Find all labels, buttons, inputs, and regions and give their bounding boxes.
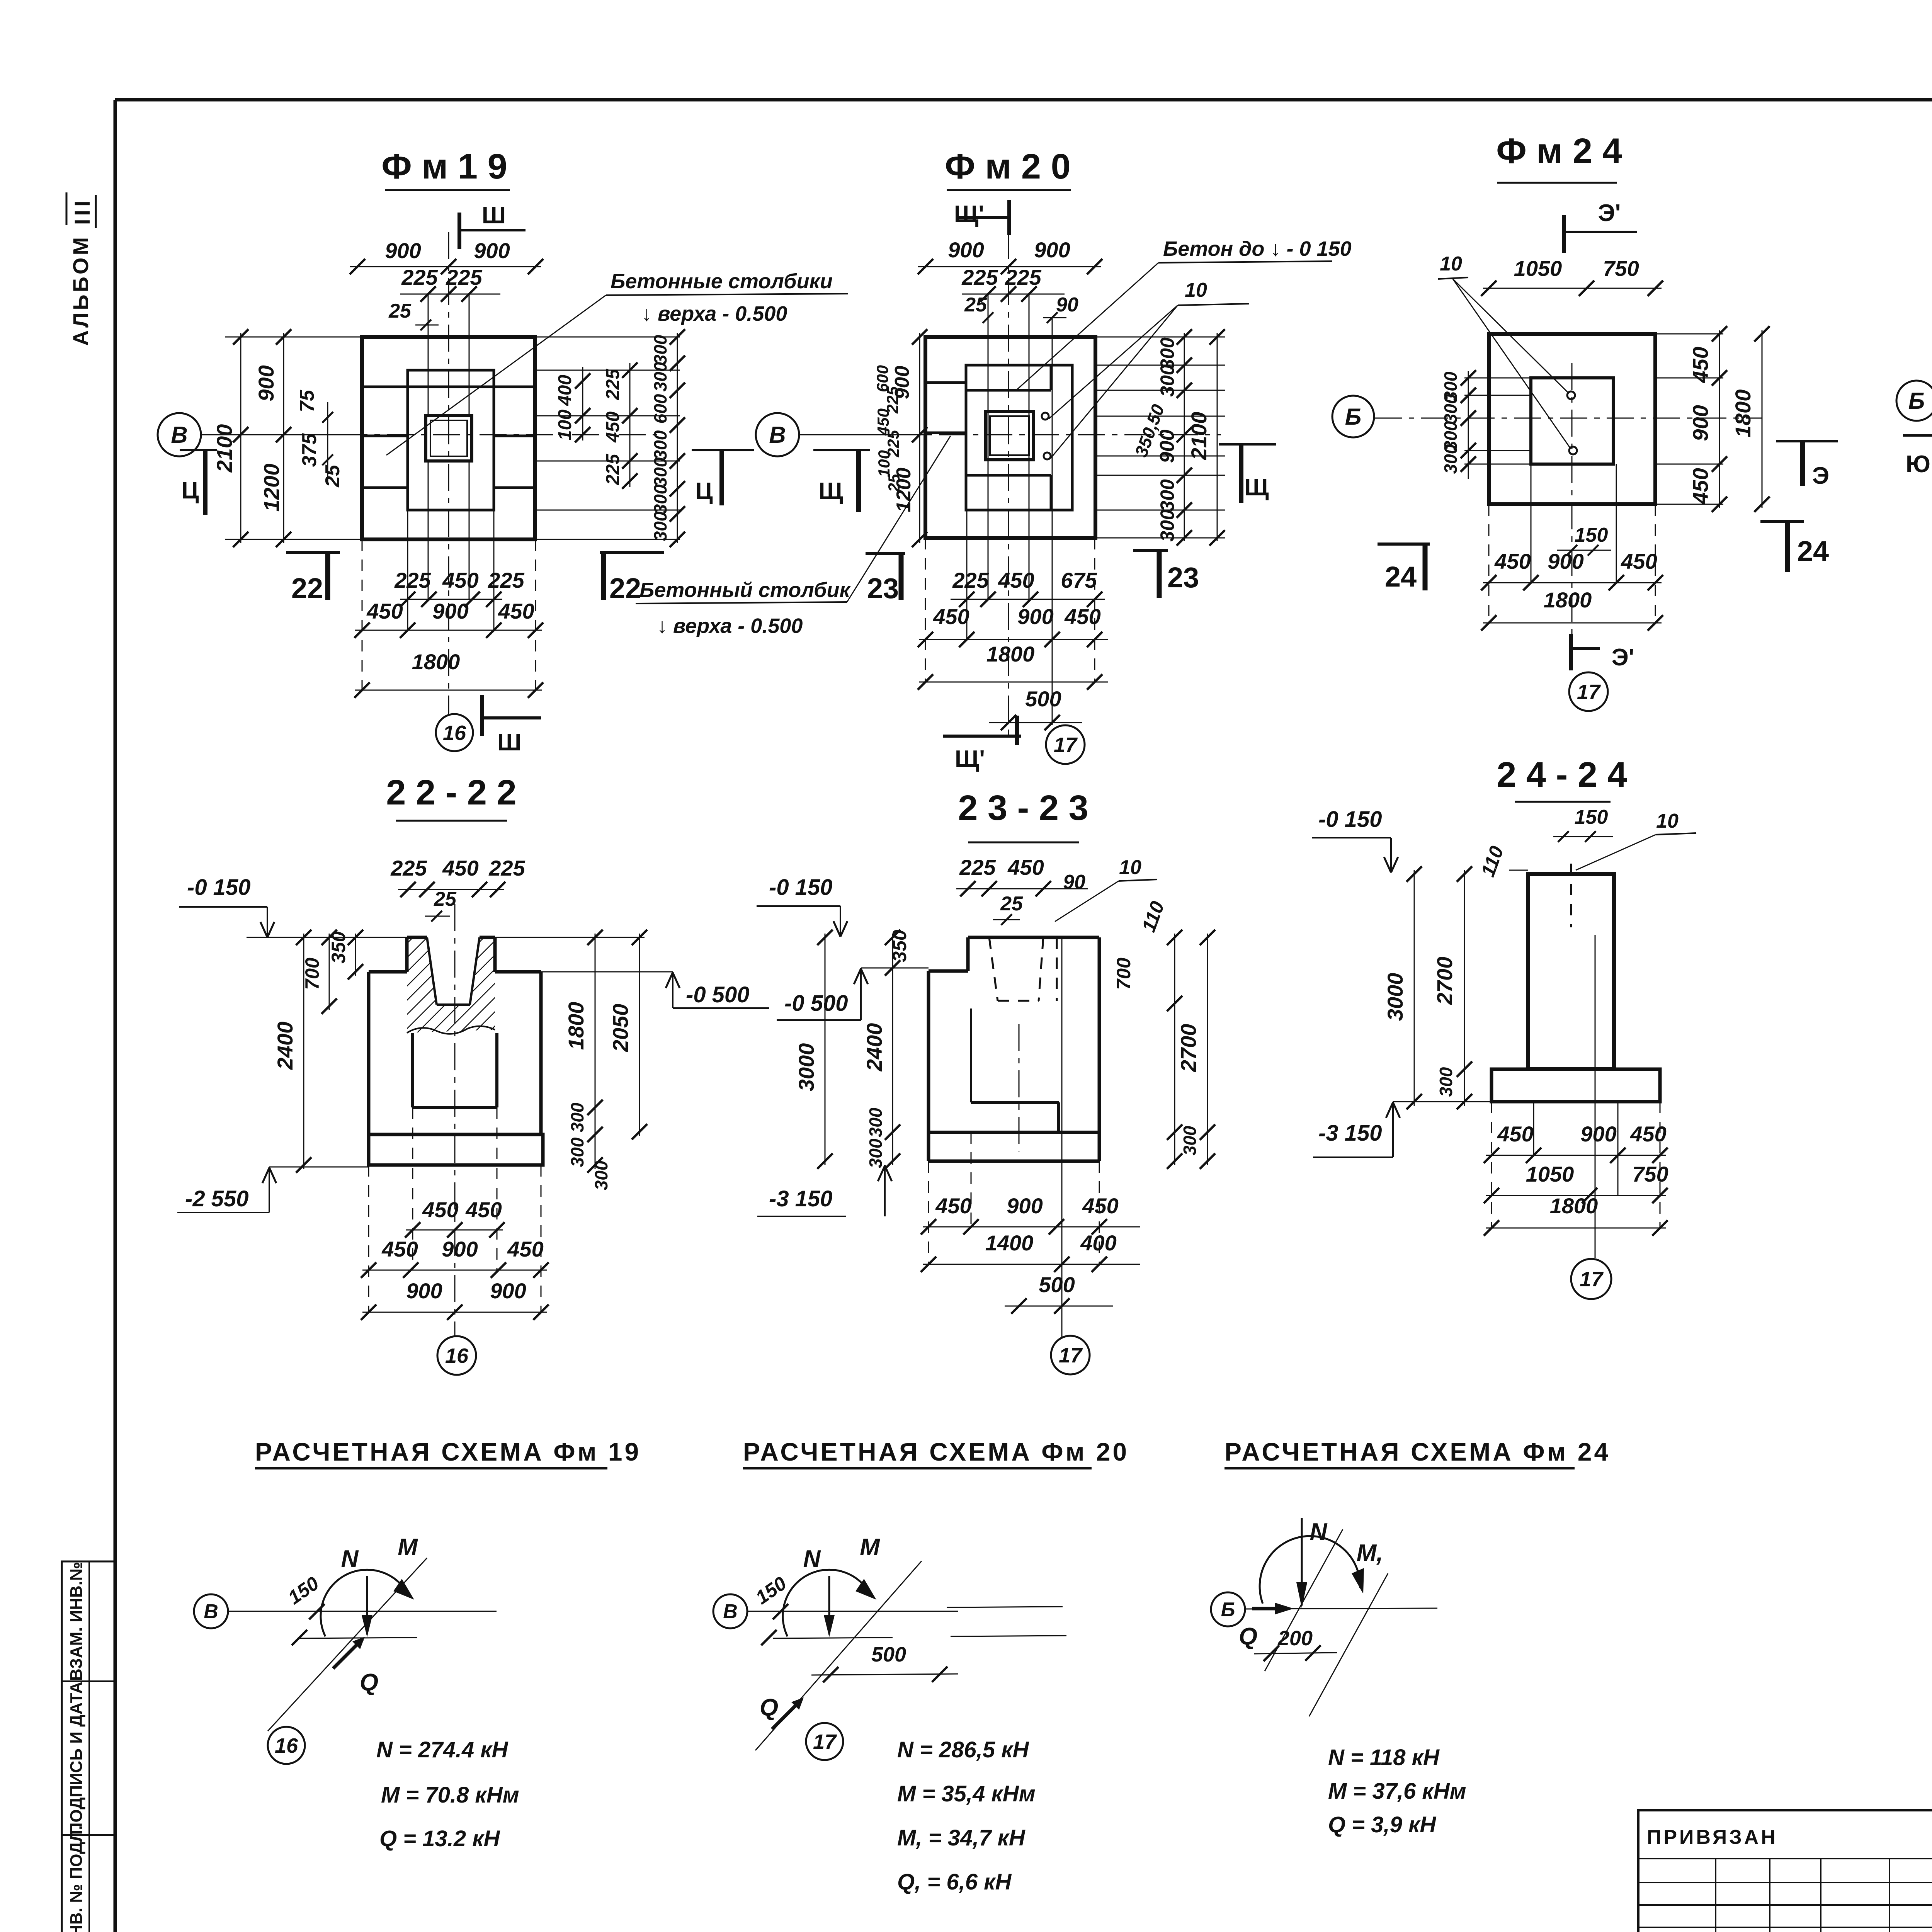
svg-text:500: 500 bbox=[871, 1643, 906, 1666]
scheme Фм24 force Q arrow bbox=[1252, 1607, 1287, 1611]
svg-text:ПРИВЯЗАН: ПРИВЯЗАН bbox=[1647, 1826, 1778, 1849]
plan Фм19 column cup inner bbox=[430, 420, 467, 456]
section 22-22 cup outline bbox=[407, 936, 427, 939]
plan Фм24 outer footing outline bbox=[1489, 334, 1655, 504]
scheme Фм20 force Q arrow bbox=[772, 1700, 801, 1729]
plan Фм19 projection horizontals to right chains bbox=[535, 337, 680, 338]
plan Фм24 post circles bbox=[1567, 391, 1575, 399]
svg-text:900: 900 bbox=[490, 1279, 526, 1303]
svg-text:M = 70.8 кНм: M = 70.8 кНм bbox=[381, 1782, 519, 1808]
section 22-22 left chain 2400 bbox=[303, 934, 304, 1169]
plan Фм20 top band notch bbox=[966, 389, 1051, 392]
svg-text:N: N bbox=[341, 1546, 359, 1572]
svg-text:300: 300 bbox=[650, 430, 670, 460]
plan Фм20 concrete post circles bbox=[1042, 413, 1049, 420]
svg-text:450: 450 bbox=[1621, 549, 1657, 573]
scheme Фм19 circle 16 bbox=[268, 1727, 305, 1764]
svg-text:2100: 2100 bbox=[212, 424, 236, 473]
svg-text:300: 300 bbox=[866, 1138, 886, 1168]
svg-text:Б: Б bbox=[1908, 388, 1925, 414]
section mark Ю left bbox=[1903, 434, 1932, 437]
svg-text:III: III bbox=[70, 197, 94, 225]
svg-text:Бетонные столбики: Бетонные столбики bbox=[611, 270, 833, 293]
svg-text:Б: Б bbox=[1345, 404, 1361, 430]
section mark 22 left bbox=[286, 551, 340, 554]
svg-text:750: 750 bbox=[1632, 1162, 1668, 1186]
scheme Фм19 diagonal bbox=[268, 1558, 427, 1731]
svg-text:Q: Q bbox=[360, 1669, 378, 1696]
sub table row lines bbox=[1638, 1858, 1932, 1859]
scheme Фм24 force N arrow bbox=[1301, 1518, 1303, 1605]
svg-text:23: 23 bbox=[867, 572, 899, 604]
svg-text:450: 450 bbox=[1688, 468, 1713, 504]
svg-text:2100: 2100 bbox=[1187, 412, 1211, 461]
svg-text:17: 17 bbox=[1580, 1268, 1604, 1291]
plan Фм19 step lines bbox=[362, 386, 535, 388]
scheme Фм24 diagonals bbox=[1265, 1529, 1343, 1671]
svg-text:1200: 1200 bbox=[259, 464, 284, 512]
svg-text:450: 450 bbox=[442, 568, 478, 592]
svg-text:16: 16 bbox=[445, 1344, 469, 1367]
svg-text:2050: 2050 bbox=[608, 1004, 633, 1053]
plan Фм19 right chain 225 450 225 bbox=[629, 363, 631, 487]
grid circle 17 below section 24-24 bbox=[1571, 1259, 1611, 1299]
svg-text:450: 450 bbox=[1497, 1122, 1533, 1146]
plan Фм20 bottom dim 1800 bbox=[919, 682, 1108, 683]
svg-text:900: 900 bbox=[1034, 238, 1070, 262]
svg-text:Ю: Ю bbox=[1906, 451, 1930, 478]
svg-text:1800: 1800 bbox=[1550, 1194, 1598, 1218]
plan Фм20 left chain 900 1200 bbox=[919, 333, 920, 543]
svg-text:25: 25 bbox=[885, 474, 903, 492]
left stamp strip cell line 1 bbox=[62, 1680, 115, 1682]
svg-text:90: 90 bbox=[1056, 294, 1078, 316]
svg-text:450: 450 bbox=[1630, 1122, 1666, 1146]
section 24-24 left chain 2700 300 bbox=[1464, 870, 1465, 1106]
svg-text:150: 150 bbox=[1575, 806, 1608, 828]
section 24-24 rebar dashed bbox=[1570, 864, 1572, 927]
svg-text:Q = 13.2 кН: Q = 13.2 кН bbox=[379, 1826, 500, 1851]
svg-text:10: 10 bbox=[1656, 810, 1679, 832]
section 22-22 right chain 2050 bbox=[639, 934, 640, 1136]
svg-text:22: 22 bbox=[609, 572, 641, 604]
plan Фм19 right chain 100 400 bbox=[582, 367, 583, 440]
plan Фм24 projection verticals bbox=[1531, 464, 1532, 583]
svg-text:16: 16 bbox=[275, 1734, 298, 1757]
plan Фм19 centre axis horizontal bbox=[201, 434, 657, 435]
svg-text:1800: 1800 bbox=[564, 1002, 588, 1050]
svg-text:17: 17 bbox=[1054, 733, 1078, 757]
svg-text:N = 274.4 кН: N = 274.4 кН bbox=[376, 1737, 509, 1762]
scheme Фм20 parallel lines bbox=[773, 1638, 893, 1638]
section mark 23 right bbox=[1133, 549, 1168, 552]
sheet frame left border bbox=[114, 100, 117, 1932]
svg-text:10: 10 bbox=[1119, 856, 1141, 879]
svg-text:Б: Б bbox=[1221, 1599, 1235, 1621]
svg-text:24: 24 bbox=[1385, 561, 1417, 593]
scheme Фм20 force N arrow bbox=[828, 1576, 830, 1634]
plan Фм19 top dim 900 900 bbox=[350, 266, 541, 267]
svg-text:225: 225 bbox=[401, 265, 438, 289]
svg-text:2400: 2400 bbox=[862, 1023, 886, 1072]
svg-text:Щ: Щ bbox=[1244, 474, 1269, 501]
left stamp strip outer box bbox=[62, 1561, 115, 1932]
svg-text:Щ': Щ' bbox=[955, 746, 985, 772]
svg-text:900: 900 bbox=[406, 1279, 442, 1303]
svg-text:В: В bbox=[171, 422, 187, 448]
plan Фм20 centre axis horizontal bbox=[800, 434, 1221, 435]
svg-text:Э: Э bbox=[1812, 463, 1829, 489]
section 22-22 body outline bbox=[369, 970, 407, 974]
svg-text:25: 25 bbox=[321, 464, 344, 488]
section 24-24 footing outline bbox=[1492, 1069, 1660, 1102]
section 23-23 left chain 350 2400 300 300 bbox=[892, 934, 893, 1165]
section 22-22 projection top right bbox=[495, 937, 645, 938]
plan Фм19 left dims 900 1200 bbox=[283, 333, 284, 543]
svg-text:600: 600 bbox=[650, 394, 670, 423]
svg-text:М = 37,6 кНм: М = 37,6 кНм bbox=[1328, 1779, 1466, 1804]
section 23-23 right chain 110 700 2700 300 bbox=[1174, 934, 1175, 1165]
svg-text:300: 300 bbox=[1440, 394, 1461, 423]
section 22-22 bottom dim 450 900 450 bbox=[362, 1270, 547, 1271]
svg-text:900: 900 bbox=[1007, 1194, 1043, 1218]
axis circle В left of Фм19 bbox=[158, 413, 201, 456]
section 23-23 left chain 3000 bbox=[825, 934, 826, 1165]
scheme Фм20 circle 17 bbox=[806, 1723, 843, 1760]
svg-text:225: 225 bbox=[961, 265, 998, 289]
svg-text:-0 150: -0 150 bbox=[769, 875, 832, 900]
section 24-24 projection verticals bbox=[1533, 1102, 1534, 1155]
svg-text:В: В bbox=[204, 1600, 218, 1623]
plan Фм20 bottom dim 500 bbox=[989, 722, 1082, 723]
svg-text:225: 225 bbox=[394, 568, 431, 592]
section 22-22 projection line top bbox=[247, 937, 407, 938]
sub table Привязан outer box bbox=[1638, 1810, 1932, 1932]
section mark 24 left bbox=[1378, 543, 1430, 546]
plan Фм24 centre axis vertical bbox=[1571, 363, 1573, 672]
svg-text:900: 900 bbox=[1580, 1122, 1616, 1146]
plan Фм19 top section mark Ш bbox=[457, 213, 461, 249]
plan Фм20 bottom section mark Щ' bbox=[943, 735, 1021, 738]
scheme Фм20 dim 500 bbox=[811, 1674, 958, 1675]
plan Фм19 centre axis vertical bbox=[448, 232, 449, 714]
section 24-24 centre axis bbox=[1595, 935, 1596, 1258]
plan Фм24 inner opening outline bbox=[1531, 378, 1613, 464]
section 23-23 inner step bbox=[970, 1009, 972, 1102]
scheme Фм24 moment M arc bbox=[1260, 1536, 1360, 1604]
scheme Фм20 axis line bbox=[747, 1611, 958, 1612]
svg-text:↓ верха - 0.500: ↓ верха - 0.500 bbox=[657, 614, 803, 638]
svg-text:РАСЧЕТНАЯ СХЕМА Фм 19: РАСЧЕТНАЯ СХЕМА Фм 19 bbox=[255, 1437, 641, 1466]
scheme Фм24 axis circle Б bbox=[1211, 1592, 1245, 1626]
section mark Ц left bbox=[180, 449, 217, 451]
grid circle 17 below Фм24 bbox=[1569, 672, 1608, 711]
svg-text:-3 150: -3 150 bbox=[769, 1186, 832, 1211]
svg-text:225: 225 bbox=[488, 856, 525, 880]
section 22-22 projection verticals to dims bbox=[412, 1107, 413, 1270]
plan Фм19 bottom dim 450 900 450 bbox=[355, 630, 542, 631]
section 23-23 projection verticals bbox=[928, 1161, 929, 1264]
section 24-24 bottom dim 1050 750 bbox=[1486, 1195, 1666, 1196]
section 23-23 off axis line bbox=[1061, 937, 1063, 1337]
section 22-22 centre axis bbox=[454, 904, 456, 1337]
left stamp strip cell line 2 bbox=[62, 1834, 115, 1836]
svg-text:25: 25 bbox=[964, 294, 987, 316]
svg-text:24: 24 bbox=[1797, 535, 1829, 567]
svg-text:25: 25 bbox=[388, 300, 412, 322]
section 23-23 bottom dim 450 900 450 bbox=[923, 1226, 1140, 1228]
plan Фм19 right chain 300 300 600 300 300 300 bbox=[677, 333, 678, 543]
sheet frame top border bbox=[115, 98, 1932, 102]
plan Фм19 bottom section mark Ш bbox=[480, 695, 484, 736]
svg-text:3000: 3000 bbox=[794, 1043, 818, 1092]
svg-text:450: 450 bbox=[935, 1194, 971, 1218]
left stamp strip divider column bbox=[88, 1561, 90, 1932]
svg-text:900: 900 bbox=[948, 238, 984, 262]
svg-text:Q: Q bbox=[760, 1694, 778, 1721]
svg-text:10: 10 bbox=[1185, 279, 1207, 301]
plan Фм20 projection horizontals to right chains bbox=[1095, 337, 1225, 338]
svg-text:2 2 - 2 2: 2 2 - 2 2 bbox=[386, 773, 517, 812]
plan Фм24 top section mark Э' bbox=[1562, 215, 1566, 253]
scheme Фм19 force Q arrow bbox=[333, 1639, 362, 1668]
svg-text:225: 225 bbox=[603, 369, 623, 400]
svg-text:300: 300 bbox=[1436, 1067, 1456, 1097]
plan Фм20 column cup outer bbox=[985, 412, 1034, 460]
svg-text:23: 23 bbox=[1167, 561, 1199, 594]
plan Фм19 projection verticals bbox=[428, 294, 429, 416]
svg-text:100: 100 bbox=[555, 410, 575, 440]
svg-text:450: 450 bbox=[507, 1237, 543, 1261]
svg-text:Э': Э' bbox=[1612, 644, 1634, 671]
svg-text:2700: 2700 bbox=[1432, 957, 1457, 1005]
svg-text:450: 450 bbox=[1064, 604, 1100, 629]
scheme Фм20 moment M arc bbox=[783, 1570, 871, 1636]
svg-text:N = 286,5 кН: N = 286,5 кН bbox=[897, 1737, 1029, 1762]
plan Фм19 top dim 225 225 bbox=[400, 294, 500, 295]
grid circle 16 below section 22-22 bbox=[437, 1336, 476, 1375]
svg-text:450: 450 bbox=[1082, 1194, 1118, 1218]
svg-text:-0 500: -0 500 bbox=[784, 991, 848, 1016]
svg-text:N: N bbox=[803, 1546, 821, 1572]
svg-text:-0 150: -0 150 bbox=[1318, 807, 1382, 832]
svg-text:900: 900 bbox=[1688, 405, 1713, 441]
svg-text:Ц: Ц bbox=[181, 477, 199, 504]
svg-text:900: 900 bbox=[385, 238, 421, 263]
svg-text:25: 25 bbox=[434, 888, 457, 910]
svg-text:В: В bbox=[723, 1600, 738, 1623]
svg-text:Q, = 6,6 кН: Q, = 6,6 кН bbox=[897, 1869, 1012, 1895]
scheme Фм24 axis line bbox=[1245, 1608, 1437, 1609]
svg-text:M: M bbox=[860, 1534, 880, 1561]
svg-text:450: 450 bbox=[1007, 855, 1044, 879]
svg-text:300: 300 bbox=[591, 1160, 611, 1190]
svg-text:225: 225 bbox=[959, 855, 996, 879]
section 22-22 right chain 1800 300 300 bbox=[595, 934, 596, 1169]
svg-text:350: 350 bbox=[889, 930, 910, 962]
svg-text:900: 900 bbox=[1548, 549, 1583, 573]
section 22-22 bottom slab bbox=[369, 1134, 543, 1165]
plan Фм24 top dim 1050 750 bbox=[1483, 288, 1662, 289]
svg-text:900: 900 bbox=[432, 599, 468, 623]
section 23-23 top dim 225 450 bbox=[956, 888, 1088, 889]
svg-text:17: 17 bbox=[813, 1730, 837, 1753]
scheme Фм19 ticks and 150 bbox=[309, 1604, 325, 1619]
svg-text:450: 450 bbox=[422, 1197, 458, 1222]
scheme Фм20 axis circle В bbox=[713, 1594, 747, 1628]
plan Фм19 left dim 2100 bbox=[240, 333, 241, 543]
section 24-24 column outline bbox=[1528, 874, 1614, 1069]
svg-text:200: 200 bbox=[1277, 1627, 1313, 1650]
plan Фм19 middle step outline bbox=[408, 370, 494, 510]
svg-text:500: 500 bbox=[1025, 687, 1061, 711]
plan Фм19 extension lines to left chains bbox=[225, 337, 362, 338]
svg-text:16: 16 bbox=[443, 721, 466, 745]
section 22-22 bottom dim 450 450 bbox=[406, 1230, 503, 1231]
plan Фм24 right chain 1800 bbox=[1762, 330, 1763, 508]
plan Фм24 projection horizontals to left chain bbox=[1464, 378, 1531, 379]
svg-text:M: M bbox=[398, 1534, 418, 1561]
section 24-24 bottom dim 450 900 450 bbox=[1486, 1155, 1666, 1156]
axis circle В left of Фм20 bbox=[756, 413, 799, 456]
section 22-22 inner cavity bbox=[411, 1033, 414, 1107]
section mark Щ right bbox=[1219, 443, 1276, 446]
svg-text:300: 300 bbox=[1156, 509, 1178, 542]
section mark 24 right bbox=[1760, 520, 1804, 523]
section 23-23 centre axis bbox=[1019, 1024, 1020, 1151]
svg-text:17: 17 bbox=[1059, 1344, 1083, 1367]
svg-text:450: 450 bbox=[366, 599, 403, 623]
grid circle 17 below section 23-23 bbox=[1051, 1336, 1090, 1374]
svg-text:300: 300 bbox=[1156, 479, 1178, 512]
svg-text:1800: 1800 bbox=[1731, 389, 1755, 438]
plan Фм24 right chain 450 900 450 bbox=[1655, 333, 1723, 335]
section 23-23 bottom dim 1400 400 bbox=[923, 1264, 1140, 1265]
svg-text:700: 700 bbox=[1113, 957, 1134, 990]
svg-text:N = 118 кН: N = 118 кН bbox=[1328, 1745, 1440, 1770]
section 22-22 left chain 350 bbox=[355, 934, 356, 976]
plan Фм20 top dim 900 900 bbox=[918, 266, 1101, 267]
svg-text:АЛЬБОМ: АЛЬБОМ bbox=[68, 235, 93, 346]
svg-text:450: 450 bbox=[1688, 347, 1713, 383]
svg-text:1800: 1800 bbox=[1544, 588, 1592, 612]
svg-text:Q: Q bbox=[1239, 1623, 1257, 1650]
svg-text:675: 675 bbox=[1061, 568, 1097, 592]
svg-text:Бетон до ↓ - 0 150: Бетон до ↓ - 0 150 bbox=[1163, 237, 1352, 260]
axis circle Б left of Фм24 bbox=[1332, 396, 1374, 437]
svg-text:N: N bbox=[1310, 1519, 1328, 1545]
svg-text:22: 22 bbox=[291, 572, 323, 604]
svg-text:2700: 2700 bbox=[1176, 1024, 1201, 1073]
svg-text:Q = 3,9 кН: Q = 3,9 кН bbox=[1328, 1812, 1436, 1837]
svg-text:2400: 2400 bbox=[273, 1022, 297, 1070]
svg-text:225: 225 bbox=[446, 265, 482, 289]
plan Фм20 bottom dim 450 900 450 bbox=[919, 639, 1108, 640]
svg-text:300: 300 bbox=[567, 1102, 587, 1132]
plan Фм20 left notch lines bbox=[925, 381, 966, 384]
svg-text:↓ верха - 0.500: ↓ верха - 0.500 bbox=[641, 302, 787, 325]
plan Фм24 bottom section mark Э' bbox=[1569, 634, 1573, 670]
plan Фм24 bottom dim 450 900 450 bbox=[1483, 582, 1662, 583]
plan Фм20 column cup inner bbox=[990, 416, 1029, 455]
svg-text:-0 500: -0 500 bbox=[686, 982, 749, 1007]
svg-text:400: 400 bbox=[1080, 1231, 1116, 1255]
scheme Фм19 axis line bbox=[228, 1611, 497, 1612]
scheme Фм20 diagonal bbox=[755, 1561, 922, 1750]
plan Фм20 outer footing outline bbox=[925, 337, 1095, 538]
svg-text:300: 300 bbox=[1180, 1126, 1200, 1155]
svg-text:400: 400 bbox=[555, 375, 575, 406]
svg-text:ВЗАМ. ИНВ.№: ВЗАМ. ИНВ.№ bbox=[67, 1562, 86, 1681]
plan Фм20 top dim 225 225 bbox=[962, 294, 1065, 295]
svg-text:ИНВ. № ПОДЛ.: ИНВ. № ПОДЛ. bbox=[67, 1825, 86, 1932]
svg-text:75: 75 bbox=[296, 389, 318, 412]
section mark Ц right bbox=[692, 449, 754, 451]
plan Фм19 bottom dim 1800 bbox=[355, 690, 542, 691]
axis circle Б left of Фм25 bbox=[1896, 381, 1932, 421]
svg-text:225: 225 bbox=[952, 568, 989, 592]
svg-text:Ш: Ш bbox=[497, 729, 521, 756]
section mark 22 right bbox=[600, 551, 664, 554]
svg-text:РАСЧЕТНАЯ СХЕМА Фм 24: РАСЧЕТНАЯ СХЕМА Фм 24 bbox=[1225, 1437, 1611, 1466]
svg-text:300: 300 bbox=[1440, 444, 1461, 474]
section 22-22 top dim 225 450 225 bbox=[398, 889, 504, 890]
svg-text:100: 100 bbox=[875, 450, 893, 477]
svg-text:700: 700 bbox=[301, 957, 323, 990]
section 24-24 bottom dim 1800 bbox=[1486, 1228, 1666, 1229]
svg-text:Ф м 2 4: Ф м 2 4 bbox=[1496, 131, 1622, 171]
section mark 23 left bbox=[866, 552, 905, 555]
svg-text:Э': Э' bbox=[1598, 200, 1621, 226]
section 22-22 bottom dim 900 900 bbox=[362, 1312, 547, 1313]
section 22-22 cup hatched walls bbox=[407, 937, 437, 1005]
svg-text:900: 900 bbox=[254, 365, 278, 401]
plan Фм20 bottom dim 225 450 675 bbox=[951, 599, 1105, 600]
plan Фм19 column cup outer bbox=[426, 416, 472, 461]
scheme Фм19 parallel line bbox=[298, 1638, 417, 1638]
svg-text:М = 35,4 кНм: М = 35,4 кНм bbox=[897, 1781, 1036, 1806]
svg-text:1050: 1050 bbox=[1526, 1162, 1574, 1186]
svg-text:450: 450 bbox=[603, 412, 623, 443]
section mark Э right bbox=[1776, 440, 1838, 442]
svg-text:225: 225 bbox=[603, 454, 623, 485]
plan Фм24 centre axis horizontal bbox=[1375, 418, 1762, 419]
plan Фм20 projection verticals bbox=[988, 294, 989, 599]
section 23-23 bottom dim 500 bbox=[1005, 1306, 1113, 1307]
svg-text:300: 300 bbox=[1156, 364, 1178, 397]
plan Фм20 centre axis vertical bbox=[1008, 232, 1009, 736]
scheme Фм19 axis circle В bbox=[194, 1594, 228, 1628]
svg-text:25: 25 bbox=[1000, 893, 1023, 915]
svg-text:90: 90 bbox=[1063, 871, 1085, 893]
section mark Щ left bbox=[813, 449, 870, 451]
plan Фм24 bottom dim 1800 bbox=[1483, 622, 1662, 624]
svg-text:450: 450 bbox=[1494, 549, 1531, 573]
svg-text:Ц: Ц bbox=[695, 478, 713, 505]
scheme Фм24 dim 200 bbox=[1254, 1653, 1337, 1654]
svg-text:900: 900 bbox=[442, 1237, 478, 1261]
plan Фм24 left chain 300 300 bbox=[1468, 371, 1469, 479]
svg-text:900: 900 bbox=[1017, 604, 1053, 629]
svg-text:1800: 1800 bbox=[412, 650, 460, 674]
svg-text:225: 225 bbox=[488, 568, 524, 592]
svg-text:450: 450 bbox=[498, 599, 534, 623]
svg-text:-0 150: -0 150 bbox=[187, 875, 250, 900]
scheme Фм19 moment M arc bbox=[321, 1570, 409, 1636]
svg-text:М, = 34,7 кН: М, = 34,7 кН bbox=[897, 1825, 1026, 1850]
grid circle 16 below Фм19 bbox=[436, 714, 473, 751]
plan Фм20 bottom band notch bbox=[966, 474, 1051, 477]
